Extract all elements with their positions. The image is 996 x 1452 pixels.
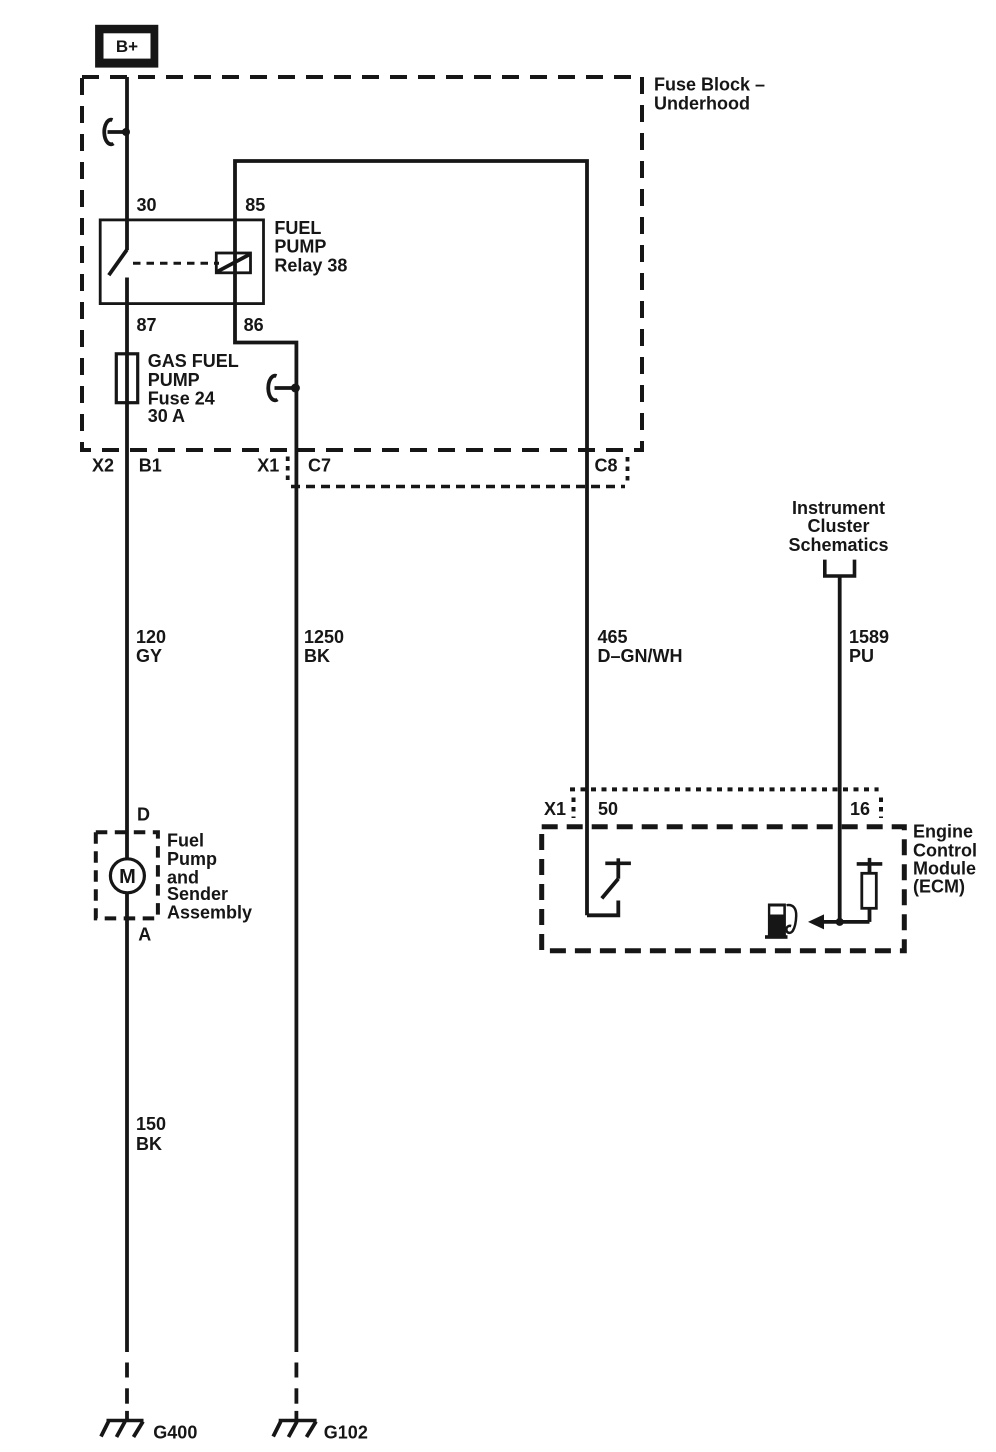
- svg-text:Relay 38: Relay 38: [274, 255, 347, 275]
- svg-text:G400: G400: [153, 1423, 197, 1443]
- fusible link at B+ wire: [104, 120, 130, 145]
- fuel pump and sender assembly dashed box: [96, 832, 158, 918]
- fuel pump icon: [765, 904, 796, 939]
- svg-text:1250: 1250: [304, 627, 344, 647]
- svg-text:FUEL: FUEL: [274, 218, 321, 238]
- label Engine Control Module ECM: [913, 821, 977, 896]
- svg-text:A: A: [138, 925, 151, 945]
- svg-text:Pump: Pump: [167, 849, 217, 869]
- fuse block underhood dashed box: [82, 77, 642, 450]
- svg-text:PUMP: PUMP: [274, 237, 326, 257]
- svg-text:X2: X2: [92, 456, 114, 476]
- svg-text:87: 87: [137, 315, 157, 335]
- ECM internal resistor: [857, 858, 883, 922]
- svg-text:Fuel: Fuel: [167, 831, 204, 851]
- svg-text:GAS FUEL: GAS FUEL: [148, 351, 239, 371]
- svg-text:86: 86: [244, 315, 264, 335]
- label FUEL PUMP Relay 38: [274, 218, 347, 276]
- svg-text:Engine: Engine: [913, 821, 973, 841]
- svg-text:Module: Module: [913, 858, 976, 878]
- svg-text:B+: B+: [116, 37, 138, 56]
- dashed wire end above G400: [125, 1363, 129, 1422]
- svg-text:Fuse Block –: Fuse Block –: [654, 75, 765, 95]
- svg-text:C8: C8: [595, 456, 618, 476]
- svg-text:30: 30: [137, 195, 157, 215]
- ECM internal switch: [587, 858, 631, 915]
- fusible link at pin 86 wire: [268, 376, 300, 401]
- svg-text:120: 120: [136, 627, 166, 647]
- off-page bracket to instrument cluster: [825, 560, 855, 576]
- svg-text:(ECM): (ECM): [913, 877, 965, 897]
- label Fuse Block Underhood: [654, 75, 765, 114]
- fuse 24: [116, 354, 137, 403]
- wire label 1250 BK: [304, 627, 344, 666]
- svg-text:GY: GY: [136, 646, 162, 666]
- svg-text:Schematics: Schematics: [788, 535, 888, 555]
- svg-text:30 A: 30 A: [148, 406, 185, 426]
- wire label 1589 PU: [849, 627, 889, 666]
- ECM connector dotted line: [570, 787, 879, 791]
- relay switch blade: [109, 250, 127, 276]
- svg-text:M: M: [119, 866, 136, 888]
- svg-text:X1: X1: [257, 456, 279, 476]
- wire relay pin 86 down to G102: [235, 304, 296, 1352]
- wire motor to G400: [125, 893, 129, 1352]
- svg-text:50: 50: [598, 799, 618, 819]
- arrow to fuel pump icon: [808, 914, 870, 929]
- relay coil: [216, 253, 250, 273]
- svg-text:PUMP: PUMP: [148, 370, 200, 390]
- relay 38 box: [100, 220, 263, 304]
- ECM connector right dotted tick: [879, 798, 883, 819]
- fuel pump motor M: [110, 859, 144, 893]
- connector X1 dotted tick: [286, 457, 290, 484]
- connector C8 dotted tick: [626, 457, 630, 484]
- svg-text:BK: BK: [304, 646, 330, 666]
- wire label 120 GY: [136, 627, 166, 666]
- svg-text:Cluster: Cluster: [807, 516, 869, 536]
- svg-text:C7: C7: [308, 456, 331, 476]
- svg-text:D–GN/WH: D–GN/WH: [598, 646, 683, 666]
- battery feed B+: [95, 25, 158, 68]
- ground G102: [273, 1421, 368, 1443]
- wire through relay coil pins 85-86: [233, 220, 237, 304]
- svg-text:G102: G102: [324, 1423, 368, 1443]
- svg-text:Assembly: Assembly: [167, 903, 252, 923]
- svg-text:Underhood: Underhood: [654, 94, 750, 114]
- svg-text:85: 85: [245, 195, 265, 215]
- wire label 465 D-GN/WH: [598, 627, 683, 666]
- svg-text:PU: PU: [849, 646, 874, 666]
- wire relay pin 87 down through fuse to motor: [125, 278, 129, 859]
- dashed wire end above G102: [294, 1363, 298, 1422]
- wire B+ to relay pin 30: [125, 77, 129, 250]
- label Instrument Cluster Schematics: [788, 498, 888, 555]
- wire relay pin 85 to C8 and down to ECM pin 50: [235, 161, 587, 915]
- ECM connector left dotted tick: [572, 798, 576, 819]
- ground G400: [101, 1421, 197, 1443]
- svg-text:Control: Control: [913, 840, 977, 860]
- svg-text:150: 150: [136, 1114, 166, 1134]
- svg-text:16: 16: [850, 799, 870, 819]
- svg-text:Sender: Sender: [167, 884, 228, 904]
- svg-text:D: D: [137, 805, 150, 825]
- wire 1589 from cluster to ECM pin 16: [838, 576, 842, 922]
- svg-text:BK: BK: [136, 1134, 162, 1154]
- svg-text:1589: 1589: [849, 627, 889, 647]
- ECM dashed box: [542, 827, 905, 951]
- svg-text:B1: B1: [139, 456, 162, 476]
- svg-text:465: 465: [598, 627, 628, 647]
- wire label 150 BK: [136, 1114, 166, 1154]
- connector X1 dashed underline: [291, 485, 625, 489]
- label GAS FUEL PUMP Fuse 24 30 A: [148, 351, 239, 426]
- relay actuation dashed link: [133, 262, 219, 265]
- label Fuel Pump and Sender Assembly: [167, 831, 252, 923]
- svg-text:X1: X1: [544, 799, 566, 819]
